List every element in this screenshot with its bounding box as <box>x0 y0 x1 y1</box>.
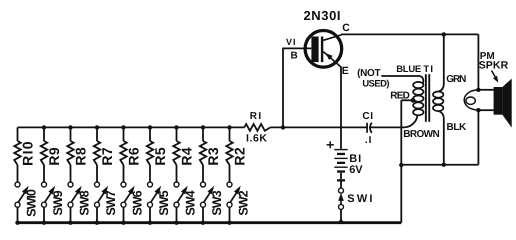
wire R6 to SW6 <box>123 165 125 182</box>
svg-text:BLK: BLK <box>447 122 468 133</box>
transformer T1 core <box>425 74 427 122</box>
svg-text:BLUE: BLUE <box>396 64 421 75</box>
switch SW6 <box>121 182 126 187</box>
wire R7 to SW7 <box>96 165 98 182</box>
wire R5 to SW5 <box>149 165 151 182</box>
svg-text:E: E <box>342 65 349 77</box>
wire branch top R9 <box>43 127 45 141</box>
svg-text:TI: TI <box>423 64 434 75</box>
speaker voice-coil loop <box>464 90 478 110</box>
svg-text:.I: .I <box>365 135 373 146</box>
svg-text:B: B <box>290 51 297 62</box>
resistor R1 <box>244 124 270 131</box>
wire speaker leads <box>478 89 494 91</box>
junction bottom rail at SW4 <box>174 221 178 225</box>
wire RED tap lead <box>401 99 413 101</box>
wire battery to SW1 <box>340 182 342 189</box>
svg-text:SWI0: SWI0 <box>24 189 38 217</box>
wire BLK lead <box>439 111 444 119</box>
junction collector/GRN <box>442 32 446 36</box>
switch SW1 <box>339 188 344 193</box>
resistor R4 <box>173 141 179 165</box>
wire R8 to SW8 <box>70 165 72 182</box>
wire collector to speaker <box>477 34 479 89</box>
svg-text:SW9: SW9 <box>51 190 65 215</box>
svg-text:R4: R4 <box>178 147 194 166</box>
junction bottom rail at SW7 <box>95 221 99 225</box>
junction speaker upper terminal <box>476 88 480 92</box>
wire branch top R3 <box>202 127 204 141</box>
svg-text:R2: R2 <box>231 147 247 166</box>
junction top rail at R2 <box>227 125 231 129</box>
resistor R7 <box>94 141 100 165</box>
svg-text:C: C <box>342 22 350 34</box>
wire SW6 to ground rail <box>123 207 125 223</box>
svg-text:USED): USED) <box>362 78 389 89</box>
switch SW2 <box>227 182 232 187</box>
wire speaker lower to ground net <box>477 110 479 165</box>
wire branch top R10 <box>17 127 19 141</box>
wire R2 to SW2 <box>229 165 231 182</box>
junction bottom rail at SW9 <box>42 221 46 225</box>
resistor R5 <box>147 141 153 165</box>
wire C1 to T1 brown lead <box>370 126 404 128</box>
transformer T1 secondary winding <box>433 92 443 98</box>
junction top rail at R4 <box>174 125 178 129</box>
transformer T1 primary winding <box>413 82 423 88</box>
svg-text:RI0: RI0 <box>19 140 35 166</box>
switch SW4 <box>174 182 179 187</box>
svg-text:RI: RI <box>250 111 263 122</box>
svg-text:I.6K: I.6K <box>246 132 268 144</box>
junction top rail at R7 <box>95 125 99 129</box>
wire R4 to SW4 <box>176 165 178 182</box>
capacitor C1 <box>366 123 368 133</box>
svg-text:R8: R8 <box>72 147 88 166</box>
svg-text:R7: R7 <box>99 147 115 166</box>
wire branch top R4 <box>176 127 178 141</box>
wire SW8 to ground rail <box>70 207 72 223</box>
resistor R2 <box>226 141 232 165</box>
wire SW1 to ground rail <box>340 209 342 222</box>
svg-text:SW4: SW4 <box>183 190 197 215</box>
resistor R10 <box>14 141 20 165</box>
svg-text:SW5: SW5 <box>157 190 171 215</box>
speaker PM SPKR <box>494 87 503 115</box>
wire branch top R7 <box>96 127 98 141</box>
junction bottom rail at SW10 <box>15 221 19 225</box>
svg-text:BROWN: BROWN <box>403 129 439 140</box>
wire SW4 to ground rail <box>176 207 178 223</box>
junction top rail at R5 <box>148 125 152 129</box>
wire ladder top rail (base bus) <box>18 126 245 128</box>
wire R9 to SW9 <box>43 165 45 182</box>
svg-text:R6: R6 <box>125 147 141 166</box>
svg-text:2N30I: 2N30I <box>303 8 341 23</box>
svg-text:CI: CI <box>362 111 373 122</box>
svg-text:SW6: SW6 <box>130 190 144 215</box>
wire SW7 to ground rail <box>96 207 98 223</box>
junction bottom rail at SW2 <box>227 221 231 225</box>
transistor V1 2N301 <box>305 31 342 68</box>
wire R10 to SW10 <box>17 165 19 182</box>
wire BLUE lead (not used) <box>381 75 419 77</box>
switch SW10 <box>15 182 20 187</box>
svg-text:SW7: SW7 <box>104 190 118 215</box>
wire SW10 to ground rail <box>17 207 19 223</box>
junction bottom rail at SW3 <box>201 221 205 225</box>
junction speaker lower terminal <box>476 108 480 112</box>
wire branch top R8 <box>70 127 72 141</box>
wire SW9 to ground rail <box>43 207 45 223</box>
resistor R8 <box>67 141 73 165</box>
switch SW8 <box>68 182 73 187</box>
svg-text:VI: VI <box>286 37 297 47</box>
wire R1 to base node <box>270 126 366 128</box>
junction RED tap on primary <box>411 98 416 103</box>
junction SW1/ground rail <box>339 220 343 224</box>
wire ground net riser <box>400 165 402 223</box>
resistor R9 <box>41 141 47 165</box>
wire branch top R2 <box>229 127 231 141</box>
svg-text:SPKR: SPKR <box>479 59 509 71</box>
junction bottom rail at SW8 <box>68 221 72 225</box>
wire SW3 to ground rail <box>202 207 204 223</box>
wire GRN lead <box>443 34 445 84</box>
svg-text:R3: R3 <box>205 147 221 166</box>
wire collector rail <box>341 33 478 35</box>
svg-text:SW2: SW2 <box>236 190 250 215</box>
switch SW5 <box>148 182 153 187</box>
switch SW9 <box>42 182 47 187</box>
wire branch top R6 <box>123 127 125 141</box>
junction top rail at R8 <box>68 125 72 129</box>
wire emitter lead <box>340 67 342 149</box>
switch SW7 <box>95 182 100 187</box>
svg-text:6V: 6V <box>349 164 363 176</box>
resistor R3 <box>200 141 206 165</box>
wire ground net horizontal <box>401 164 478 166</box>
junction BLK lead/ground net <box>442 163 446 167</box>
svg-text:SWI: SWI <box>347 193 374 205</box>
wire base lead <box>283 47 311 49</box>
junction bottom rail at SW6 <box>121 221 125 225</box>
wire SW5 to ground rail <box>149 207 151 223</box>
svg-text:R9: R9 <box>46 147 62 166</box>
junction top rail at R6 <box>121 125 125 129</box>
svg-text:SW8: SW8 <box>77 190 91 215</box>
wire branch top R5 <box>149 127 151 141</box>
switch SW3 <box>201 182 206 187</box>
svg-text:SW3: SW3 <box>210 190 224 215</box>
battery B1 6V <box>334 149 347 150</box>
wire ground bottom rail <box>18 221 402 224</box>
wire R3 to SW3 <box>202 165 204 182</box>
resistor R6 <box>120 141 126 165</box>
junction RED lead to ground net <box>399 163 403 167</box>
junction top rail at R3 <box>201 125 205 129</box>
wire SW2 to ground rail <box>229 207 231 223</box>
junction node base/R1/C1 <box>281 125 285 129</box>
junction top rail at R9 <box>42 125 46 129</box>
junction bottom rail at SW5 <box>148 221 152 225</box>
svg-text:GRN: GRN <box>446 74 466 85</box>
svg-text:R5: R5 <box>152 147 168 166</box>
svg-text:RED: RED <box>390 91 409 102</box>
